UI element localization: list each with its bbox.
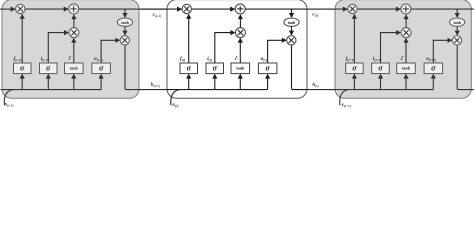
- wire: forget gate stem up into multiply (left cell): [21, 18, 23, 63]
- wire: candidate stem up into center multiply (left cell): [73, 42, 75, 63]
- svg-text:f(t): f(t): [180, 56, 185, 62]
- wire: forget gate stem up into multiply (middle cell): [188, 18, 190, 63]
- svg-text:o(t): o(t): [261, 56, 267, 62]
- wire: output gate elbow into output multiply (middle cell): [268, 40, 283, 63]
- gate box: input (right cell): [372, 63, 390, 74]
- svg-text:x(t-1): x(t-1): [4, 101, 14, 107]
- svg-text:h(t): h(t): [312, 82, 318, 88]
- svg-text:tanh: tanh: [70, 66, 79, 71]
- wire: cell-state line into forget multiply (middle cell): [141, 8, 182, 10]
- svg-text:tanh: tanh: [454, 21, 462, 25]
- tanh ellipse (right cell): [450, 18, 465, 26]
- wire: center multiply up into plus (left cell): [73, 18, 75, 28]
- multiply circle: input*candidate (middle cell): [235, 28, 245, 38]
- svg-text:c(t): c(t): [312, 12, 318, 18]
- svg-text:σ: σ: [187, 64, 192, 73]
- wire: hidden-state bus feeding gates (left cell): [1, 89, 102, 91]
- gate box: candidate (right cell): [397, 63, 416, 74]
- svg-text:f(t-1): f(t-1): [14, 56, 22, 62]
- wire: branch from cell-state line down into tanh (right cell): [456, 9, 458, 14]
- wire: hidden-state drop and exit right (right cell): [457, 45, 473, 90]
- wire: center multiply up into plus (middle cell): [239, 18, 241, 28]
- tanh ellipse (left cell): [117, 18, 132, 26]
- svg-text:tanh: tanh: [288, 21, 296, 25]
- wire: hidden-state drop and exit right (left cell): [125, 45, 141, 90]
- gate box: output (middle cell): [258, 63, 277, 74]
- wire: cell-state line into forget multiply (right cell): [307, 8, 348, 10]
- wire: tanh down into output multiply (right cell): [456, 26, 458, 31]
- gate box: input (left cell): [40, 63, 58, 74]
- wire: x input curve (middle cell): [171, 90, 179, 106]
- svg-text:tanh: tanh: [236, 66, 245, 71]
- wire: h(t) connector between middle and right cells: [307, 89, 335, 91]
- svg-text:tanh: tanh: [402, 66, 411, 71]
- wire: cell-state line from plus to right border (right cell): [411, 8, 473, 10]
- gate box: candidate (middle cell): [231, 63, 250, 74]
- wire: cell-state line from plus to right border (middle cell): [245, 8, 307, 10]
- svg-text:σ: σ: [99, 64, 104, 73]
- wire: candidate stem up into center multiply (right cell): [405, 42, 407, 63]
- wire: candidate stem up into center multiply (middle cell): [239, 42, 241, 63]
- gate box: input (middle cell): [206, 63, 224, 74]
- wire: bus branch up into input gate (right cell): [380, 78, 382, 89]
- wire: center multiply up into plus (right cell): [405, 18, 407, 28]
- multiply circle: forget gating (middle cell): [182, 4, 191, 13]
- wire: input gate elbow into center multiply (right cell): [381, 33, 398, 63]
- svg-text:i(t+1): i(t+1): [373, 56, 381, 62]
- wire: c(t-1) connector between left and middle cells: [139, 8, 167, 10]
- plus circle: cell-state update (middle cell): [235, 4, 245, 14]
- LSTM cell body A(t-1), left, dimmed: [2, 0, 139, 98]
- wire: bus branch up into output gate (right cell): [432, 78, 434, 89]
- LSTM cell body A(t), middle: [167, 0, 307, 98]
- wire: bus branch up into input gate (middle cell): [214, 78, 216, 89]
- wire: cell-state line from multiply to plus (left cell): [25, 8, 69, 10]
- wire: hidden-state bus feeding gates (right cell): [333, 89, 434, 91]
- wire: h(t+1) exit right edge: [471, 89, 474, 91]
- gate box: output (left cell): [92, 63, 111, 74]
- svg-text:σ: σ: [20, 64, 25, 73]
- svg-text:x(t+1): x(t+1): [340, 102, 351, 108]
- wire: x input curve (left cell): [4, 90, 12, 106]
- wire: cell-state line from plus to right border (left cell): [79, 8, 141, 10]
- wire: bus branch up into forget gate (right cell): [353, 78, 355, 89]
- multiply circle: output gating (left cell): [120, 36, 129, 45]
- wire: x input curve (right cell): [340, 90, 348, 106]
- svg-text:σ: σ: [378, 64, 383, 73]
- wire: input gate elbow into center multiply (middle cell): [215, 33, 232, 63]
- wire: bus branch up into candidate gate (middle cell): [239, 78, 241, 89]
- svg-text:σ: σ: [46, 64, 51, 73]
- svg-text:i(t-1): i(t-1): [41, 56, 49, 62]
- svg-text:σ: σ: [431, 64, 436, 73]
- wire: tanh down into output multiply (left cell): [124, 26, 126, 31]
- wire: bus branch up into output gate (middle cell): [267, 78, 269, 89]
- multiply circle: output gating (right cell): [452, 36, 461, 45]
- multiply circle: output gating (middle cell): [287, 36, 296, 45]
- svg-text:x(t): x(t): [171, 102, 178, 108]
- wire: hidden-state drop and exit right (middle cell): [292, 45, 308, 90]
- plus circle: cell-state update (right cell): [401, 4, 411, 14]
- wire: input gate elbow into center multiply (left cell): [48, 33, 65, 63]
- svg-text:o(t+1): o(t+1): [426, 56, 436, 62]
- multiply circle: forget gating (left cell): [16, 4, 25, 13]
- svg-text:σ: σ: [352, 64, 357, 73]
- wire: bus branch up into output gate (left cell): [100, 78, 102, 89]
- multiply circle: input*candidate (right cell): [401, 28, 411, 38]
- svg-text:tanh: tanh: [121, 21, 129, 25]
- svg-text:o(t-1): o(t-1): [94, 56, 103, 62]
- tanh ellipse (middle cell): [284, 18, 299, 26]
- multiply circle: input*candidate (left cell): [69, 28, 79, 38]
- wire: h(t-1) connector between left and middle cells: [139, 89, 167, 91]
- wire: cell-state line into forget multiply (left cell): [0, 8, 16, 10]
- svg-text:i(t): i(t): [207, 56, 212, 62]
- gate box: candidate (left cell): [65, 63, 84, 74]
- wire: branch from cell-state line down into tanh (left cell): [124, 9, 126, 14]
- wire: c(t+1) exit right edge: [471, 8, 474, 10]
- svg-text:σ: σ: [265, 64, 270, 73]
- gate box: forget (middle cell): [180, 63, 198, 74]
- wire: bus branch up into forget gate (left cell): [21, 78, 23, 89]
- wire: tanh down into output multiply (middle cell): [291, 26, 293, 31]
- svg-text:σ: σ: [213, 64, 218, 73]
- wire: forget gate stem up into multiply (right cell): [353, 18, 355, 63]
- wire: output gate elbow into output multiply (left cell): [101, 40, 116, 63]
- wire: cell-state line from multiply to plus (right cell): [357, 8, 401, 10]
- svg-text:f(t+1): f(t+1): [346, 56, 355, 62]
- wire: bus branch up into input gate (left cell): [47, 78, 49, 89]
- wire: cell-state line from multiply to plus (middle cell): [192, 8, 236, 10]
- multiply circle: forget gating (right cell): [348, 4, 357, 13]
- LSTM cell body A(t+1), right, dimmed: [335, 0, 471, 98]
- plus circle: cell-state update (left cell): [69, 4, 79, 14]
- svg-text:h(t-1): h(t-1): [151, 82, 160, 88]
- wire: bus branch up into forget gate (middle cell): [188, 78, 190, 89]
- gate box: forget (left cell): [14, 63, 32, 74]
- gate box: output (right cell): [424, 63, 443, 74]
- wire: hidden-state bus feeding gates (middle cell): [167, 89, 268, 91]
- wire: branch from cell-state line down into tanh (middle cell): [291, 9, 293, 14]
- wire: bus branch up into candidate gate (right cell): [405, 78, 407, 89]
- gate box: forget (right cell): [346, 63, 364, 74]
- wire: bus branch up into candidate gate (left cell): [73, 78, 75, 89]
- wire: c(t) connector between middle and right cells: [307, 8, 335, 10]
- wire: output gate elbow into output multiply (right cell): [433, 40, 448, 63]
- svg-text:c(t-1): c(t-1): [153, 12, 162, 18]
